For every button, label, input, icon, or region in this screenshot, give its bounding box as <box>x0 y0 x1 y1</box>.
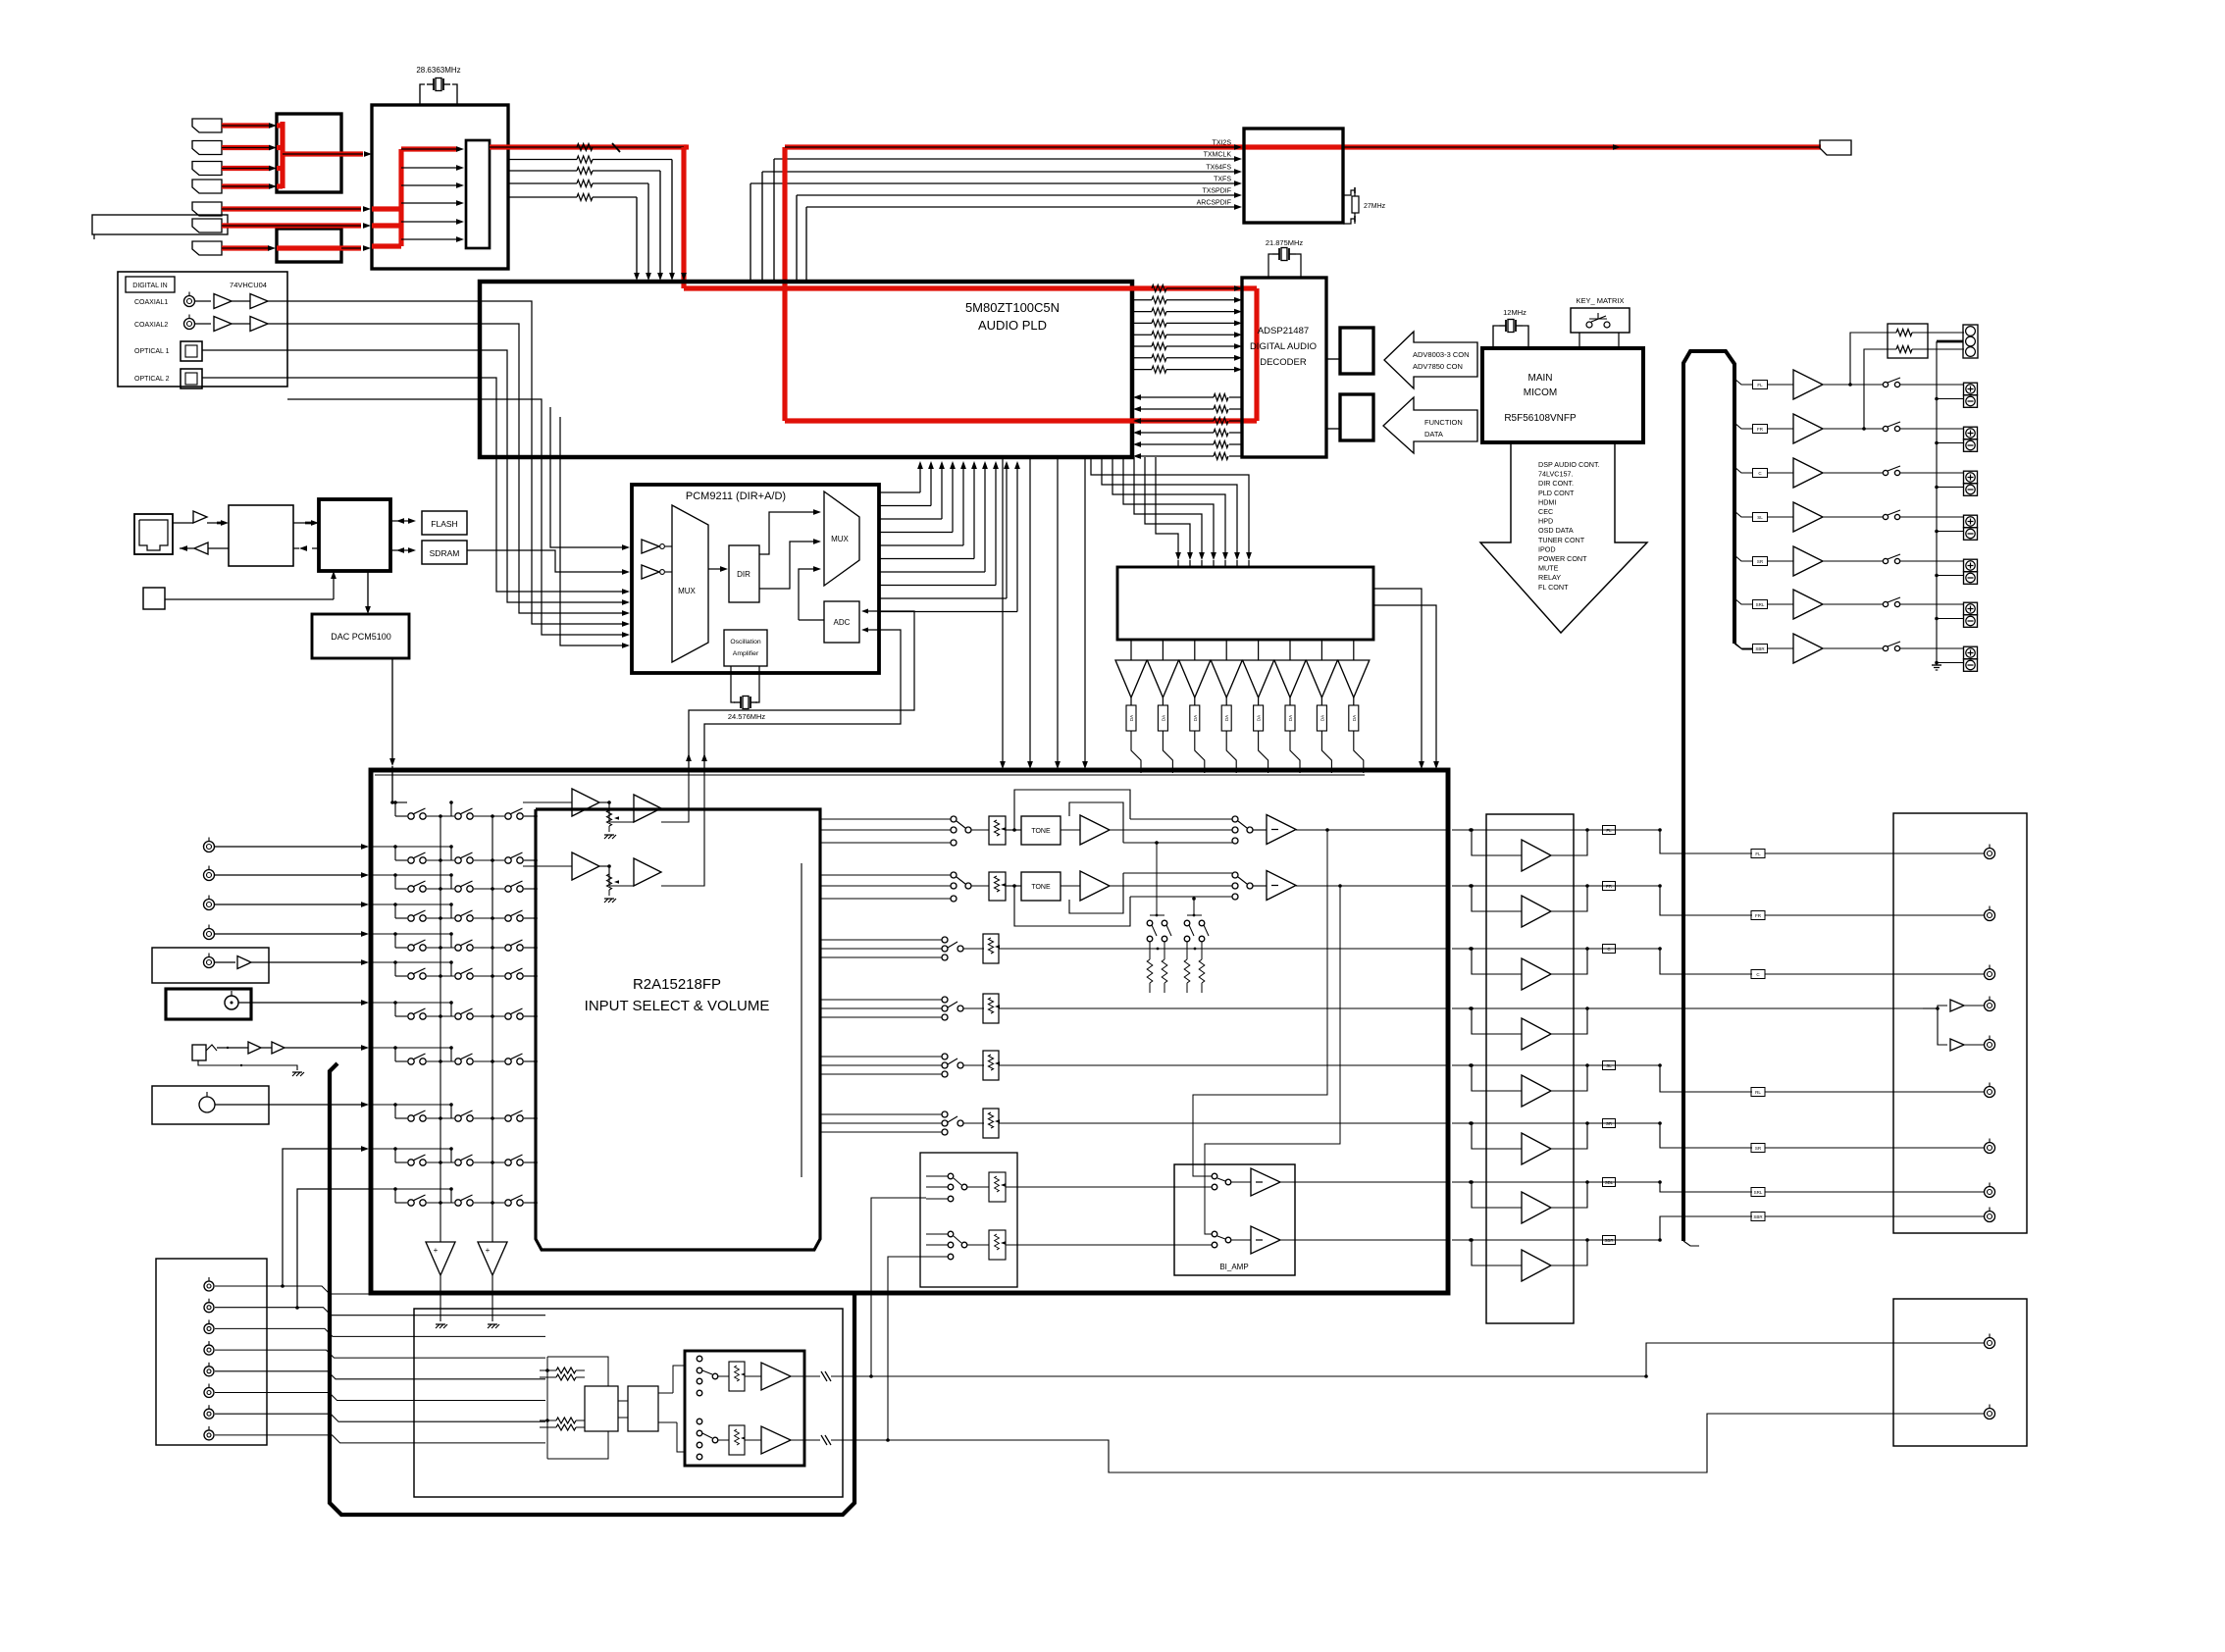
svg-text:OPTICAL 1: OPTICAL 1 <box>134 348 170 355</box>
speaker line rows to rear panel <box>1658 828 1984 1242</box>
speaker channel SL <box>1734 502 1978 540</box>
zone2 input box <box>920 1153 1017 1287</box>
digital input wires to PCM9211 <box>202 301 630 638</box>
svg-text:OPTICAL 2: OPTICAL 2 <box>134 376 170 383</box>
DSP to PLD resistor rows <box>1133 394 1242 460</box>
network audio wire to PCM9211 <box>467 407 630 648</box>
reset block <box>143 571 336 609</box>
crossover network <box>1147 841 1209 993</box>
svg-text:MICOM: MICOM <box>1524 387 1557 398</box>
svg-text:DATA: DATA <box>1424 430 1443 439</box>
svg-text:DA: DA <box>1193 715 1198 721</box>
red TXI2S trunk to HDMI transmitter and output connector <box>785 144 1821 421</box>
oscillation amplifier block <box>724 630 767 666</box>
speaker sense resistor pair <box>1848 324 1964 431</box>
big hollow control arrow <box>1480 443 1647 633</box>
rear output jack panel <box>1893 813 2027 1233</box>
ADC feed risers <box>686 611 914 770</box>
DSP connector pad A <box>1340 328 1373 374</box>
volume row SBL <box>820 1109 1448 1138</box>
svg-text:IPOD: IPOD <box>1538 544 1556 553</box>
svg-text:12MHz: 12MHz <box>1503 308 1526 317</box>
28.6363MHz crystal X1 <box>416 66 460 105</box>
svg-text:SBR: SBR <box>1753 1214 1763 1219</box>
DAC output wire to input selector <box>389 658 395 802</box>
power amplifier A4 <box>1452 1007 1660 1050</box>
svg-text:DIR: DIR <box>737 570 750 579</box>
PLD aux outputs down to tone section <box>1000 457 1088 769</box>
svg-text:DA: DA <box>1224 715 1229 721</box>
svg-text:27MHz: 27MHz <box>1364 203 1386 210</box>
network PHY block <box>229 505 293 566</box>
svg-text:DA: DA <box>1257 715 1262 721</box>
PCM9211 DIR block <box>708 545 759 602</box>
svg-text:PCM9211 (DIR+A/D): PCM9211 (DIR+A/D) <box>686 490 786 502</box>
svg-text:ADV7850 CON: ADV7850 CON <box>1413 362 1463 371</box>
svg-text:TONE: TONE <box>1031 828 1051 835</box>
volume row SL <box>820 994 1448 1023</box>
headphone preamp pair A <box>523 770 689 839</box>
ARC output connector <box>1820 140 1851 155</box>
svg-text:24.576MHz: 24.576MHz <box>728 712 766 721</box>
svg-text:SBR: SBR <box>1604 1238 1614 1243</box>
black rows into inner port block <box>401 165 464 242</box>
headphone mic jack path <box>192 1042 369 1076</box>
svg-text:FR: FR <box>1606 884 1613 889</box>
network buffer out <box>193 511 207 523</box>
power amplifier A7 <box>1452 1178 1660 1224</box>
PCM9211 output MUX <box>824 491 859 586</box>
svg-text:RELAY: RELAY <box>1538 573 1561 582</box>
HDMI switch block U1 <box>277 114 341 192</box>
red HDMI wire row7 through U2 <box>222 245 371 251</box>
svg-text:5M80ZT100C5N: 5M80ZT100C5N <box>965 300 1060 315</box>
tone control row FR <box>820 871 1448 927</box>
HDMI transmitter U4 <box>1244 129 1343 223</box>
svg-text:COAXIAL2: COAXIAL2 <box>134 322 168 329</box>
svg-text:KEY_ MATRIX: KEY_ MATRIX <box>1576 296 1624 305</box>
svg-text:SR: SR <box>1606 1121 1613 1126</box>
red trunk drop into PLD <box>681 147 689 288</box>
12MHz crystal X4 <box>1493 308 1528 348</box>
svg-text:Amplifier: Amplifier <box>733 650 759 657</box>
svg-text:DA: DA <box>1129 715 1134 721</box>
volume row C <box>820 934 1448 963</box>
DIGITAL IN connector box <box>118 272 287 387</box>
speaker sense terminal block <box>1937 325 1978 358</box>
svg-text:TXMCLK: TXMCLK <box>1204 152 1232 159</box>
speaker channel FL <box>1734 370 1978 407</box>
HDMI input connectors J1-J7 <box>192 119 222 255</box>
svg-text:TONE: TONE <box>1031 884 1051 891</box>
svg-text:SDRAM: SDRAM <box>430 548 460 558</box>
svg-text:SRL: SRL <box>1754 1190 1763 1195</box>
subwoofer amp block <box>685 1351 820 1466</box>
svg-text:+: + <box>486 1246 491 1255</box>
svg-text:ADC: ADC <box>834 618 851 627</box>
svg-text:HDMI: HDMI <box>1538 497 1556 506</box>
summing amp right + <box>478 1242 507 1321</box>
svg-text:FR: FR <box>1757 427 1764 432</box>
audio PLD U5 5M80ZT100C5N <box>480 282 1132 457</box>
svg-text:SR: SR <box>1757 559 1764 564</box>
svg-text:SL: SL <box>1606 1063 1612 1068</box>
svg-text:SBL: SBL <box>1605 1180 1614 1185</box>
svg-text:+: + <box>434 1246 439 1255</box>
chassis ground marks under summing amps <box>436 1324 499 1328</box>
red trunk inside HDMI receiver <box>372 146 687 246</box>
svg-text:MAIN: MAIN <box>1528 373 1553 384</box>
MAIN MICOM U7 R5F56108VNFP <box>1482 348 1643 442</box>
DSP output bus staircase <box>1091 457 1252 567</box>
power amplifier A8 <box>1452 1236 1660 1282</box>
red HDMI wire row6 <box>222 223 371 229</box>
svg-text:MUX: MUX <box>678 587 696 595</box>
portable input box <box>166 989 369 1019</box>
svg-text:CEC: CEC <box>1538 507 1553 516</box>
speaker channel C <box>1734 458 1978 495</box>
red HDMI wires into U1 <box>222 122 372 189</box>
subwoofer output wires to rear jacks <box>843 1198 1984 1472</box>
21.875MHz crystal X3 <box>1266 238 1304 278</box>
aux front input box <box>152 1086 369 1124</box>
svg-text:21.875MHz: 21.875MHz <box>1266 238 1304 247</box>
headphone split row <box>1660 1000 1984 1051</box>
PLD to DSP resistor rows <box>1132 285 1242 374</box>
rear subwoofer jack panel <box>1893 1299 2027 1446</box>
DIGITAL IN label <box>126 277 175 292</box>
svg-text:FL CONT: FL CONT <box>1538 583 1569 592</box>
svg-text:POWER CONT: POWER CONT <box>1538 554 1587 563</box>
svg-text:TXFS: TXFS <box>1214 177 1231 183</box>
svg-text:74VHCU04: 74VHCU04 <box>230 281 267 289</box>
OPTICAL 1 input <box>134 341 202 361</box>
svg-text:DAC PCM5100: DAC PCM5100 <box>331 632 391 642</box>
headphone preamp pair B <box>523 770 704 903</box>
svg-text:SL: SL <box>1757 515 1763 520</box>
svg-text:ADV8003-3 CON: ADV8003-3 CON <box>1413 350 1470 359</box>
svg-text:FR: FR <box>1755 913 1762 918</box>
svg-text:DIGITAL IN: DIGITAL IN <box>132 283 167 289</box>
network buffer in <box>194 542 208 554</box>
PCM9211 internal wires <box>759 509 824 620</box>
svg-text:TX64FS: TX64FS <box>1206 165 1231 172</box>
rear input risers <box>281 1146 369 1310</box>
KEY_MATRIX block <box>1571 296 1630 348</box>
svg-text:28.6363MHz: 28.6363MHz <box>416 66 460 75</box>
TX signal lines to HDMI transmitter <box>750 140 1242 283</box>
svg-text:FUNCTION: FUNCTION <box>1424 418 1463 427</box>
svg-text:MUTE: MUTE <box>1538 564 1559 573</box>
svg-text:FL: FL <box>1606 828 1612 833</box>
subwoofer filter outer box <box>414 1309 843 1497</box>
SDRAM memory <box>390 541 467 564</box>
svg-text:DA: DA <box>1319 715 1324 721</box>
subwoofer filter network <box>540 1357 685 1459</box>
svg-text:FL: FL <box>1755 852 1761 856</box>
bi-amp outputs to right edge <box>1295 1182 1448 1240</box>
PCM9211 input buffer 2 <box>642 565 664 579</box>
tuner output wires <box>215 1286 545 1443</box>
svg-text:RL: RL <box>1755 1090 1761 1095</box>
svg-text:AUDIO PLD: AUDIO PLD <box>978 318 1047 333</box>
bi-amp feed risers <box>1193 828 1342 1234</box>
FLASH memory <box>390 511 467 535</box>
speaker channel SRL <box>1734 590 1978 627</box>
24.576MHz crystal X5 <box>728 666 766 721</box>
bus slash mark on red trunk <box>612 143 620 152</box>
svg-text:COAXIAL1: COAXIAL1 <box>134 299 168 306</box>
R2A15218FP input select and volume IC <box>536 809 820 1250</box>
svg-text:BI_AMP: BI_AMP <box>1219 1263 1248 1271</box>
power amplifier A1 <box>1452 826 1660 872</box>
svg-text:FLASH: FLASH <box>431 519 457 529</box>
aux control verticals into analog block <box>1373 589 1439 769</box>
svg-text:Oscillation: Oscillation <box>730 639 761 645</box>
BI_AMP block <box>1174 1164 1295 1275</box>
hollow arrow FUNCTION DATA <box>1383 397 1477 453</box>
svg-text:DIGITAL AUDIO: DIGITAL AUDIO <box>1250 341 1317 352</box>
resistor on red trunk <box>577 144 593 151</box>
input selector switch matrix <box>371 800 538 1206</box>
svg-text:R5F56108VNFP: R5F56108VNFP <box>1504 413 1577 424</box>
svg-text:SR: SR <box>1755 1146 1762 1151</box>
DSP decoder U6 ADSP21487 <box>1242 278 1326 457</box>
PCM9211 DIR+ADC U8 <box>632 485 879 673</box>
lower analog block outline <box>330 1063 854 1515</box>
svg-text:DSP AUDIO CONT.: DSP AUDIO CONT. <box>1538 460 1600 469</box>
HDMI receiver U3 <box>372 105 508 269</box>
network CPU U9 <box>319 499 390 571</box>
svg-text:MUX: MUX <box>831 535 849 543</box>
svg-text:DA: DA <box>1352 715 1357 721</box>
svg-text:OSD DATA: OSD DATA <box>1538 526 1574 535</box>
speaker channel SR <box>1734 546 1978 584</box>
svg-text:TUNER CONT: TUNER CONT <box>1538 536 1585 544</box>
ethernet jack RJ45 <box>134 514 173 554</box>
red HDMI wire row5 <box>222 206 371 212</box>
HDMI switch block U2 <box>277 229 341 262</box>
PCM9211 input MUX <box>665 505 708 662</box>
summing amp left + <box>426 1242 455 1321</box>
red loop PLD to DSP <box>684 288 1257 421</box>
PCM9211 input buffer 1 <box>642 540 664 553</box>
svg-text:74LVC157.: 74LVC157. <box>1538 470 1573 479</box>
svg-text:DA: DA <box>1288 715 1293 721</box>
svg-text:SRL: SRL <box>1756 602 1765 607</box>
DAC volume amplifiers <box>1115 640 1370 773</box>
svg-text:SBR: SBR <box>1755 646 1765 651</box>
power amplifier A6 <box>1452 1119 1660 1165</box>
front HDMI label box <box>92 215 228 234</box>
speaker negative bus <box>1932 341 1941 670</box>
zone wires to BI_AMP <box>1006 1187 1212 1245</box>
power amp bank (second group) <box>1486 814 1574 1323</box>
svg-text:DA: DA <box>1161 715 1165 721</box>
HDMI receiver output rows with resistors <box>508 156 675 281</box>
power amplifier A2 <box>1452 882 1660 928</box>
27MHz crystal X2 <box>1343 187 1386 224</box>
analog switch and volume main block <box>371 770 1448 1293</box>
PCM9211 ADC <box>824 601 873 643</box>
svg-text:FL: FL <box>1757 383 1763 387</box>
COAXIAL2 input <box>134 315 268 332</box>
speaker channel SBR <box>1734 634 1978 671</box>
svg-text:DECODER: DECODER <box>1260 357 1307 368</box>
svg-text:ADSP21487: ADSP21487 <box>1258 326 1309 336</box>
DAC PCM5100 U10 <box>312 571 409 658</box>
tone control row FL <box>820 790 1448 846</box>
power amplifier A5 <box>1452 1061 1660 1108</box>
analog bus line <box>375 774 1365 776</box>
svg-text:PLD CONT: PLD CONT <box>1538 489 1575 497</box>
DSP connector pad B <box>1340 394 1373 440</box>
HDMI receiver inner port block <box>466 140 490 248</box>
svg-text:DIR CONT.: DIR CONT. <box>1538 479 1574 488</box>
subwoofer output hatch marks <box>821 1371 843 1445</box>
level shifter box 74LVC157 <box>1117 567 1373 640</box>
svg-text:HPD: HPD <box>1538 517 1553 526</box>
phono input box <box>152 948 369 983</box>
svg-text:ARCSPDIF: ARCSPDIF <box>1197 200 1231 207</box>
svg-text:R2A15218FP: R2A15218FP <box>633 976 721 993</box>
ethernet wires <box>173 520 319 551</box>
speaker channel FR <box>1734 414 1978 451</box>
volume trunk wires to summing amps <box>440 816 492 1242</box>
speaker signal trunk bus <box>1683 351 1752 1246</box>
PCM9211 outputs up into PLD <box>879 461 1020 612</box>
tuner module box <box>156 1259 267 1445</box>
COAXIAL1 input <box>134 292 268 309</box>
hollow arrow ADV8003-3 CON / ADV7850 CON <box>1384 332 1477 388</box>
analog input jacks <box>204 838 370 940</box>
svg-text:TXSPDIF: TXSPDIF <box>1202 188 1231 195</box>
svg-text:INPUT SELECT & VOLUME: INPUT SELECT & VOLUME <box>585 998 770 1014</box>
power amplifier A3 <box>1452 945 1660 991</box>
volume row SR <box>820 1051 1448 1080</box>
OPTICAL 2 input <box>134 369 202 388</box>
